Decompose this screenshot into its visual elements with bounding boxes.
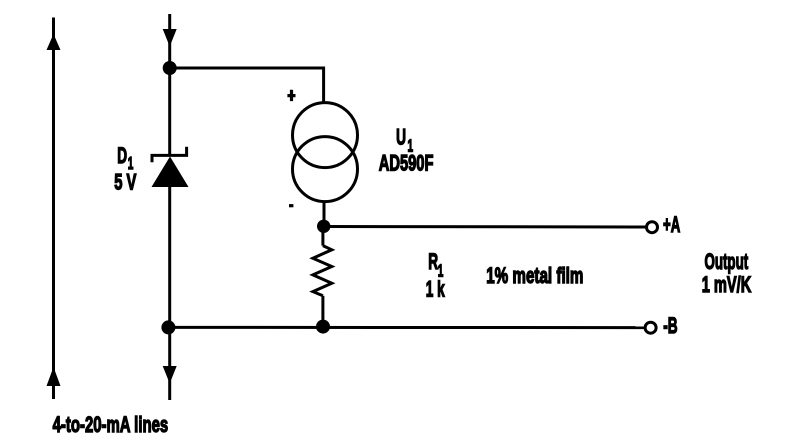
- current source U1: lower circle: [293, 137, 358, 202]
- wire: U1 bottom to +A node: [323, 201, 326, 227]
- node: +A junction: [317, 220, 330, 233]
- svg-text:5 V: 5 V: [114, 170, 137, 195]
- node: resistor bottom junction: [316, 320, 330, 334]
- node: top junction: [163, 61, 177, 75]
- arrowhead down (top of right line): [163, 29, 177, 47]
- diode D1: zener cathode bar: [152, 147, 187, 163]
- svg-text:1% metal film: 1% metal film: [486, 264, 583, 288]
- label - (U1 negative terminal): [289, 204, 293, 207]
- current source U1: upper circle: [293, 103, 358, 168]
- svg-text:+A: +A: [663, 212, 680, 236]
- wire: resistor bottom lead: [321, 296, 324, 328]
- svg-text:R: R: [428, 249, 438, 274]
- svg-text:U: U: [396, 124, 406, 149]
- arrowhead up (bottom of left line): [47, 367, 61, 386]
- svg-text:AD590F: AD590F: [379, 151, 434, 176]
- terminal -B (open circle): [645, 322, 656, 333]
- node: bottom-left junction: [161, 320, 175, 334]
- label R1: [428, 249, 443, 282]
- svg-text:Output: Output: [705, 250, 749, 274]
- wire: right 4-to-20mA line (top segment): [168, 14, 171, 156]
- svg-text:4-to-20-mA lines: 4-to-20-mA lines: [53, 412, 169, 437]
- svg-text:-B: -B: [663, 312, 677, 337]
- svg-text:1 k: 1 k: [426, 276, 446, 301]
- wire: bottom horizontal (-B line): [168, 326, 644, 329]
- label + (U1 positive terminal): [287, 90, 295, 101]
- wire: resistor top lead: [321, 226, 324, 245]
- wire: +A output line: [324, 225, 646, 229]
- diode D1: anode triangle: [152, 157, 189, 188]
- arrowhead up (top of left line): [47, 34, 61, 50]
- svg-text:D: D: [117, 143, 127, 168]
- arrowhead down (bottom of right line): [163, 366, 177, 384]
- label D1: [117, 143, 133, 174]
- terminal +A (open circle): [647, 222, 658, 233]
- resistor R1 zigzag: [313, 246, 332, 296]
- svg-text:1 mV/K: 1 mV/K: [702, 272, 752, 297]
- label U1: [396, 124, 413, 156]
- wire: left 4-to-20mA line: [52, 18, 55, 400]
- wire: right 4-to-20mA line (bottom segment): [168, 187, 171, 400]
- wire: top horizontal: [170, 68, 324, 104]
